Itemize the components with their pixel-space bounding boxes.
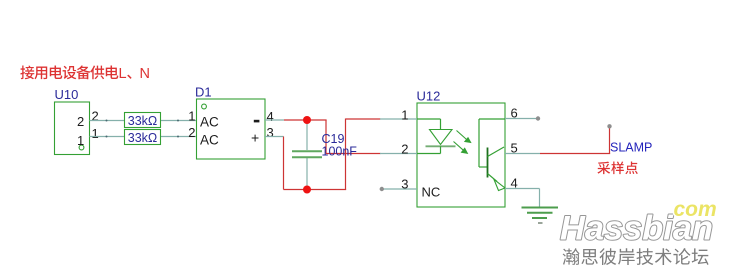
- svg-text:SLAMP: SLAMP: [610, 141, 652, 155]
- svg-text:1: 1: [92, 126, 99, 141]
- svg-text:1: 1: [401, 107, 408, 122]
- svg-text:NC: NC: [422, 185, 441, 200]
- svg-text:1: 1: [77, 133, 84, 148]
- svg-text:+: +: [251, 130, 259, 146]
- svg-text:4: 4: [511, 176, 518, 191]
- svg-text:33kΩ: 33kΩ: [128, 114, 158, 128]
- svg-text:2: 2: [401, 141, 408, 156]
- svg-text:2: 2: [92, 109, 99, 124]
- svg-text:AC: AC: [200, 133, 219, 148]
- svg-text:2: 2: [77, 114, 84, 129]
- svg-text:3: 3: [267, 125, 274, 140]
- svg-text:3: 3: [401, 176, 408, 191]
- svg-text:U10: U10: [55, 87, 79, 102]
- svg-text:5: 5: [511, 141, 518, 156]
- svg-text:N: N: [140, 66, 150, 82]
- svg-text:4: 4: [267, 109, 274, 124]
- svg-text:L: L: [119, 66, 127, 82]
- svg-text:com: com: [674, 198, 717, 221]
- svg-text:AC: AC: [200, 115, 219, 130]
- svg-text:6: 6: [511, 106, 518, 121]
- svg-text:U12: U12: [417, 89, 441, 104]
- svg-text:100nF: 100nF: [322, 145, 358, 159]
- svg-text:2: 2: [188, 125, 195, 140]
- svg-text:1: 1: [188, 109, 195, 124]
- svg-text:D1: D1: [195, 85, 212, 100]
- svg-text:33kΩ: 33kΩ: [128, 131, 158, 145]
